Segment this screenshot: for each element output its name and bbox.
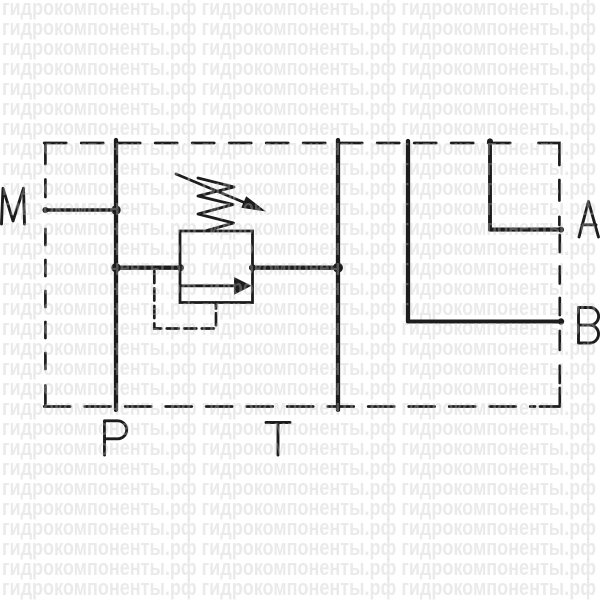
junction node T-valve [333, 263, 343, 273]
label T [266, 423, 290, 456]
svg-text:гидрокомпоненты.рф гидрокомпон: гидрокомпоненты.рф гидрокомпоненты.рф ги… [2, 575, 596, 600]
node B line end [558, 318, 564, 324]
wire T line vertical [336, 140, 340, 410]
node valve box right [249, 264, 256, 271]
enclosure dashed border bottom [44, 405, 535, 408]
wire M port horizontal [45, 208, 116, 212]
wire valve inlet (P to valve box) [116, 266, 181, 270]
label P [105, 421, 127, 455]
node A line end [558, 227, 564, 233]
spring (zigzag) [198, 178, 234, 231]
wire valve outlet vertical to B [406, 141, 410, 322]
enclosure dashed border top [44, 142, 523, 145]
enclosure dashed border left [44, 143, 47, 197]
node A vertical top [487, 138, 493, 144]
wire B port horizontal [408, 319, 561, 323]
adjustment arrow shaft [176, 174, 249, 205]
pilot line solid stub below valve box [215, 303, 218, 309]
junction node M-P [111, 205, 120, 214]
wire P line vertical [114, 140, 118, 410]
wire A port horizontal [490, 228, 562, 232]
pilot dashed line below valve [154, 269, 216, 329]
junction node P-valve [111, 263, 120, 272]
wire valve outlet (valve box to T) [253, 266, 339, 270]
relief valve body box [180, 231, 253, 303]
node M line left end [42, 207, 48, 213]
enclosure dashed border right [558, 180, 561, 225]
wire A vertical from top border [488, 141, 492, 229]
label B [579, 308, 599, 344]
adjustment arrowhead [241, 196, 266, 211]
label M [2, 188, 25, 224]
node valve box left [177, 264, 184, 271]
label A [579, 202, 599, 238]
valve flow arrowhead [234, 277, 252, 295]
valve flow arrow shaft [182, 284, 236, 287]
